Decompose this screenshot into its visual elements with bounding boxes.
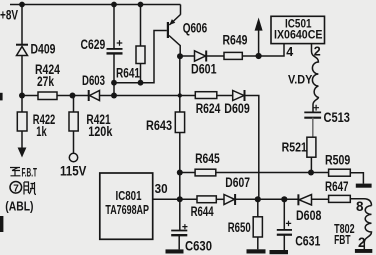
resistor R645 <box>195 169 216 176</box>
op-amp U2 IC801 box <box>100 173 153 239</box>
svg-text:D409: D409 <box>31 41 56 56</box>
capacitor C631 <box>277 199 292 250</box>
capacitor C629 <box>107 40 123 95</box>
svg-text:TA7698AP: TA7698AP <box>105 203 149 217</box>
wire +8V top rail <box>10 4 181 6</box>
svg-text:30: 30 <box>155 182 168 196</box>
node R641 bottom junction <box>138 80 144 86</box>
resistor R641 <box>136 46 145 64</box>
resistor R643 <box>175 112 184 133</box>
wire collector vertical line <box>179 56 181 112</box>
node C629-R641 wire junction <box>111 80 117 86</box>
inductor V.DY <box>312 52 319 113</box>
wire <box>217 95 233 97</box>
ground <box>356 184 372 188</box>
svg-text:C630: C630 <box>185 239 212 254</box>
resistor R624 <box>195 92 217 99</box>
svg-text:D609: D609 <box>224 101 250 116</box>
capacitor C513 <box>304 105 321 118</box>
node rail-C629 junction <box>111 2 117 8</box>
wire <box>216 198 224 200</box>
wire base link <box>114 31 167 83</box>
wire <box>21 131 23 148</box>
svg-text:1k: 1k <box>36 124 47 139</box>
transistor Q2 Q606 <box>168 5 181 57</box>
resistor R650 <box>253 217 262 237</box>
resistor R509 <box>329 169 351 176</box>
wire R422 branch <box>21 96 23 113</box>
ground <box>247 249 266 253</box>
diode D409 <box>16 45 28 96</box>
diode D607 <box>224 194 298 205</box>
node scan artifact left edge 2 <box>0 216 3 232</box>
diode D603 <box>89 90 196 101</box>
svg-text:2: 2 <box>358 235 366 250</box>
wire <box>57 95 89 97</box>
wire <box>73 131 75 153</box>
svg-text:R624: R624 <box>196 101 221 116</box>
diode D609 <box>233 90 245 101</box>
inductor T802 FBT winding <box>364 206 371 249</box>
wire IC501 pin2 lead <box>311 44 313 52</box>
svg-text:27k: 27k <box>37 74 54 89</box>
svg-text:D603: D603 <box>82 73 105 88</box>
svg-text:D608: D608 <box>296 208 322 223</box>
node C629 junction <box>111 93 117 99</box>
arrow to FBT pin7 ABL <box>18 148 27 158</box>
resistor R644 <box>197 196 216 203</box>
wire D409 branch <box>21 5 23 45</box>
wire <box>140 64 142 83</box>
svg-text:R645: R645 <box>195 151 220 166</box>
svg-text:8: 8 <box>356 199 364 214</box>
wire collector to D601 <box>180 55 194 57</box>
wire <box>257 237 259 249</box>
wire R649 to IC501 pin4 <box>242 44 284 56</box>
node R521 junction <box>308 170 314 176</box>
resistor R521 <box>307 137 316 157</box>
svg-text:+8V: +8V <box>0 8 18 23</box>
ground <box>166 249 184 253</box>
wire <box>216 172 329 174</box>
wire R647 to T802 pin8 <box>350 199 371 206</box>
diode D601 <box>195 51 225 62</box>
wire <box>310 157 312 172</box>
svg-text:FBT: FBT <box>334 233 351 247</box>
svg-text:115V: 115V <box>60 163 86 178</box>
svg-text:4: 4 <box>286 45 293 59</box>
wire IC801 pin30 row <box>153 198 197 200</box>
node R421 junction <box>70 93 76 99</box>
node R645 left junction <box>177 170 183 176</box>
svg-text:C631: C631 <box>295 233 321 248</box>
svg-text:R650: R650 <box>228 220 251 235</box>
node rail-R641 junction <box>138 2 144 8</box>
resistor R424 <box>38 92 57 100</box>
svg-text:V.DY: V.DY <box>288 73 312 87</box>
node scan artifact left edge 1 <box>0 93 3 101</box>
svg-text:R649: R649 <box>223 33 248 48</box>
svg-text:(ABL): (ABL) <box>5 199 33 214</box>
node collector line crossing <box>178 93 182 97</box>
svg-text:D607: D607 <box>225 175 250 190</box>
svg-text:R643: R643 <box>146 118 172 133</box>
resistor R422 <box>17 112 27 131</box>
wire C629 branch <box>113 5 115 49</box>
svg-text:D601: D601 <box>191 61 217 76</box>
resistor R649 <box>224 52 242 59</box>
svg-text:120k: 120k <box>88 124 113 139</box>
wire R509 to ground <box>350 173 363 184</box>
wire C513 to R521 <box>312 118 314 138</box>
svg-text:R647: R647 <box>325 179 349 194</box>
node R650 junction <box>255 196 261 202</box>
node pin4 junction <box>256 53 262 59</box>
svg-text:R641: R641 <box>116 66 140 81</box>
svg-text:7: 7 <box>13 184 19 195</box>
wire R650 branch <box>257 199 259 217</box>
wire <box>179 133 181 231</box>
svg-text:C513: C513 <box>324 110 351 125</box>
wire R421 branch <box>73 96 75 113</box>
node left junction <box>19 93 25 99</box>
svg-text:2: 2 <box>314 45 321 59</box>
node jiao character label <box>24 182 36 195</box>
svg-text:R509: R509 <box>325 152 350 167</box>
svg-text:C629: C629 <box>81 37 106 52</box>
wire R641 branch <box>140 5 142 47</box>
node rail-D409 junction <box>19 2 25 8</box>
node zhi F.B.T label <box>10 168 21 176</box>
ground <box>270 250 289 254</box>
wire main left horizontal <box>22 95 38 97</box>
arrow up off-page <box>255 18 263 57</box>
node pin 7 circled label <box>10 182 22 194</box>
node pin30 junction <box>177 196 183 202</box>
node collector junction <box>177 53 183 59</box>
node C631 junction <box>281 196 287 202</box>
svg-text:IC801: IC801 <box>116 189 142 203</box>
svg-text:F.B.T: F.B.T <box>22 166 38 180</box>
op-amp U1 IC501 box <box>271 16 325 43</box>
resistor R647 <box>329 195 351 202</box>
wire R645 row <box>180 172 195 174</box>
node 115V terminal <box>69 153 77 161</box>
resistor R421 <box>69 112 78 131</box>
capacitor C630 <box>171 224 187 249</box>
svg-text:R521: R521 <box>282 141 307 155</box>
svg-text:Q606: Q606 <box>183 21 208 36</box>
wire D609 to D607 junction <box>245 96 259 200</box>
diode D608 <box>298 194 328 205</box>
svg-text:R644: R644 <box>191 204 214 219</box>
ground <box>355 249 372 253</box>
svg-text:IX0640CE: IX0640CE <box>274 27 323 41</box>
